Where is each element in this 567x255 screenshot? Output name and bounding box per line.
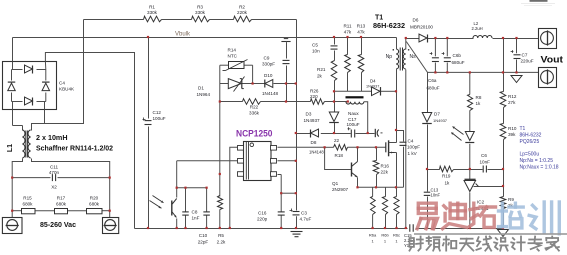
opto LED xyxy=(465,132,474,141)
wire Ns bottom x=405.8 xyxy=(405,70,407,229)
svg-text:C6b: C6b xyxy=(453,53,462,58)
wire opto LED branch x=469.8 xyxy=(469,72,471,94)
sense resistor R6c 1 xyxy=(394,197,399,215)
junction at 516.5,72.4 xyxy=(515,71,517,73)
svg-text:86H-6232: 86H-6232 xyxy=(373,23,405,30)
resistor R21 2k xyxy=(331,61,337,81)
svg-text:D10: D10 xyxy=(264,73,273,78)
svg-text:1 kV: 1 kV xyxy=(408,151,418,156)
svg-text:220: 220 xyxy=(310,94,318,99)
svg-text:D1: D1 xyxy=(198,86,204,91)
junction at 281.2,228 xyxy=(280,227,282,229)
IC U1 pin 4 xyxy=(271,172,277,177)
svg-text:D6: D6 xyxy=(413,18,419,23)
wire Ns top to D6 xyxy=(405,39,407,50)
junction at 295.8,193.2 xyxy=(295,192,297,194)
opto LED emission arrows xyxy=(453,127,464,135)
svg-text:PQ26/25: PQ26/25 xyxy=(520,139,540,145)
thermistor R14 NTC xyxy=(229,62,245,69)
junction at 148,37 xyxy=(147,36,149,38)
junction at 503,186 xyxy=(502,185,504,187)
input terminal left xyxy=(2,218,22,234)
junction at 12.2,177.6 xyxy=(11,177,13,179)
svg-text:680uF: 680uF xyxy=(452,60,465,65)
junction at 109.7,210.7 xyxy=(109,210,111,212)
svg-text:NTC: NTC xyxy=(228,54,238,59)
wire AC node to startup resistors x=83 xyxy=(32,20,84,131)
svg-text:336k: 336k xyxy=(249,111,260,116)
svg-text:C3: C3 xyxy=(301,211,307,216)
svg-text:1N4937: 1N4937 xyxy=(433,118,448,123)
watermark text line 1 xyxy=(418,203,436,213)
svg-text:1nF: 1nF xyxy=(192,216,200,221)
junction at 295.8,160.8 xyxy=(295,160,297,162)
svg-text:330pF: 330pF xyxy=(262,62,275,67)
wire compensation line y=169 xyxy=(428,169,440,171)
capacitor C7 220uF xyxy=(514,54,521,56)
junction at 405.8,228 xyxy=(405,227,407,229)
wire C7 branch xyxy=(516,39,518,54)
svg-text:330k: 330k xyxy=(147,10,158,15)
resistor R15 680k xyxy=(22,209,36,214)
junction at 176.7,228 xyxy=(176,227,178,229)
svg-text:C7: C7 xyxy=(522,53,528,58)
resistor R17 680k xyxy=(55,209,68,214)
wire snubber chain x=334 xyxy=(334,38,336,45)
capacitor C3 4.7uF xyxy=(293,211,300,213)
svg-text:C5: C5 xyxy=(312,43,318,48)
capacitor aux small xyxy=(374,129,376,137)
junction at 435.4,72.4 xyxy=(434,71,436,73)
wire C9 branch x=286 xyxy=(286,43,288,59)
transistor Q1 2N2907 xyxy=(351,163,353,177)
junction at 12.2,210.7 xyxy=(11,210,13,212)
svg-text:IC2: IC2 xyxy=(477,200,485,205)
common mode choke L1 2x10mH xyxy=(22,130,25,158)
svg-text:4.7uF: 4.7uF xyxy=(300,217,312,222)
resistor R13 47k xyxy=(358,55,364,73)
wire C6a branch xyxy=(434,39,436,57)
svg-text:85-260 Vac: 85-260 Vac xyxy=(40,222,76,229)
wire top startup rail y=19 xyxy=(84,19,144,21)
mosfet M1 xyxy=(385,142,387,152)
svg-text:C16: C16 xyxy=(258,211,267,216)
wire sense resistor Rb branch xyxy=(385,187,387,196)
capacitor C6b 680uF xyxy=(444,57,451,59)
junction at 252.6,83.5 xyxy=(252,82,254,84)
svg-text:2.2uH: 2.2uH xyxy=(472,26,483,31)
wire opto emitter to ground xyxy=(176,219,178,229)
svg-text:R10: R10 xyxy=(508,126,517,131)
svg-text:R26: R26 xyxy=(310,89,319,94)
optocoupler phototransistor xyxy=(171,201,173,216)
junction at 334,101.5 xyxy=(333,100,335,102)
svg-text:470n: 470n xyxy=(49,170,60,175)
svg-text:Lp=500u: Lp=500u xyxy=(520,152,540,158)
svg-text:R15: R15 xyxy=(23,196,32,201)
junction at 206.6,228 xyxy=(206,227,208,229)
resistor R18 22 xyxy=(334,145,348,151)
output terminal plus xyxy=(539,29,557,49)
svg-text:R6b: R6b xyxy=(381,233,389,238)
svg-text:100uF: 100uF xyxy=(347,122,360,127)
junction at 176.7,187.7 xyxy=(176,187,178,189)
svg-text:10nF: 10nF xyxy=(480,160,491,165)
diode D7 1N4937 xyxy=(422,113,432,123)
svg-text:D7: D7 xyxy=(434,112,440,117)
svg-text:R18: R18 xyxy=(335,153,344,158)
wire R11 branch xyxy=(347,38,349,55)
wire TL431 ref line xyxy=(474,186,504,188)
wire IC pin1 to ground xyxy=(230,147,238,228)
svg-text:T1: T1 xyxy=(375,15,383,22)
svg-text:C12: C12 xyxy=(153,110,162,115)
junction at 361,37 xyxy=(360,36,362,38)
junction at 385,228 xyxy=(384,227,386,229)
svg-text:NCP1250: NCP1250 xyxy=(236,129,273,140)
wire NTC parallel loop xyxy=(220,64,229,66)
ground symbol primary xyxy=(291,231,303,233)
resistor R22 336k xyxy=(243,99,261,105)
junction at 435.4,38 xyxy=(434,37,436,39)
wire aux cap line y=133 xyxy=(296,133,311,135)
resistor R19 1k xyxy=(440,166,454,172)
capacitor C5 10n xyxy=(331,45,338,47)
inductor L2 2.2uH xyxy=(473,36,492,39)
wire X2 cap line y=177.6 xyxy=(12,177,50,179)
wire lower output rail y=72.4 xyxy=(428,71,539,73)
diode D10 1N4148 xyxy=(264,80,266,88)
svg-text:C11: C11 xyxy=(50,165,59,170)
diode D6 MBR20100 xyxy=(419,34,427,42)
capacitor C6 10nF xyxy=(482,166,484,173)
wire output rail y=38 xyxy=(428,38,474,40)
resistor R3 330k xyxy=(192,16,210,22)
IC U1 pin 6 xyxy=(271,146,277,151)
input terminal right xyxy=(103,218,119,234)
svg-text:100pF: 100pF xyxy=(407,145,420,150)
svg-text:D4: D4 xyxy=(370,79,376,84)
sense resistor R6a 1 xyxy=(371,197,376,215)
svg-text:L1: L1 xyxy=(7,144,14,152)
junction at 185.5,228 xyxy=(184,227,186,229)
resistor R10 39k xyxy=(500,124,506,140)
svg-text:R17: R17 xyxy=(57,196,66,201)
diode D8 1N4148 xyxy=(310,130,312,138)
svg-text:Vbulk: Vbulk xyxy=(175,32,191,38)
svg-text:47k: 47k xyxy=(357,30,365,35)
svg-text:R2: R2 xyxy=(239,5,245,10)
svg-text:2k: 2k xyxy=(317,74,323,79)
junction at 286,101.5 xyxy=(285,100,287,102)
svg-text:680k: 680k xyxy=(23,202,34,207)
wire naux right stub xyxy=(364,102,368,134)
svg-text:R8: R8 xyxy=(476,95,482,100)
svg-text:330k: 330k xyxy=(195,10,206,15)
resistor R2 220k xyxy=(234,16,252,22)
svg-text:39k: 39k xyxy=(508,132,516,137)
wire R22 R26 line y=101.5 xyxy=(220,101,243,103)
junction at 219.8,174 xyxy=(219,173,221,175)
svg-text:R3: R3 xyxy=(197,5,203,10)
svg-text:1k: 1k xyxy=(445,181,451,186)
wire bridge plus stub xyxy=(12,38,14,62)
junction at 185.5,187.7 xyxy=(184,187,186,189)
wire primary ground rail y=228 xyxy=(135,228,408,230)
capacitor C4 100pF 1kV xyxy=(400,141,407,143)
svg-text:Ns: Ns xyxy=(410,54,417,60)
junction at 286,83.5 xyxy=(285,82,287,84)
junction at 219.8,101.5 xyxy=(219,100,221,102)
resistor R16 22k xyxy=(373,161,379,175)
junction at 324.6,147.3 xyxy=(324,146,326,148)
svg-text:680k: 680k xyxy=(89,202,100,207)
svg-text:R13: R13 xyxy=(357,24,366,29)
junction at 148,228 xyxy=(147,227,149,229)
svg-text:D8: D8 xyxy=(311,140,317,145)
svg-text:D3: D3 xyxy=(306,112,312,117)
junction at 334,37 xyxy=(333,36,335,38)
wire sense resistor Rc branch xyxy=(396,187,398,196)
junction at 516.5,38 xyxy=(515,37,517,39)
resistor R1 330k xyxy=(144,16,162,22)
svg-text:R20: R20 xyxy=(90,196,99,201)
junction at 376,147.3 xyxy=(375,146,377,148)
junction at 347.8,101.5 xyxy=(347,100,349,102)
svg-text:Np:Ns = 1:0.25: Np:Ns = 1:0.25 xyxy=(520,158,554,164)
svg-text:C9: C9 xyxy=(264,56,270,61)
watermark underline xyxy=(414,233,567,235)
junction at 296,228 xyxy=(295,227,297,229)
junction at 405.8,38 xyxy=(405,37,407,39)
resistor R11 47k xyxy=(345,55,351,73)
svg-text:KBU4K: KBU4K xyxy=(59,87,75,92)
wire C10 branch x=206.6 xyxy=(206,188,208,212)
junction at 372.6,228 xyxy=(372,227,374,229)
capacitor C17 100uF xyxy=(350,130,352,138)
IC U1 pin 1 xyxy=(238,146,244,151)
wire IC drv pin to gate node xyxy=(278,146,325,148)
svg-text:1N4148: 1N4148 xyxy=(309,150,324,155)
svg-text:2 x 10mH: 2 x 10mH xyxy=(36,135,68,142)
resistor R9 2k xyxy=(500,197,506,209)
junction at 469.8,72.4 xyxy=(469,71,471,73)
bridge rectifier C4 KBU4K xyxy=(3,62,57,110)
junction at 503,169 xyxy=(502,168,504,170)
wire discharge resistor row y=210.7 xyxy=(12,210,21,212)
svg-text:R16: R16 xyxy=(381,164,390,169)
junction at 295.8,133 xyxy=(295,132,297,134)
junction at 447.3,38 xyxy=(446,37,448,39)
svg-text:2N2907: 2N2907 xyxy=(332,187,349,192)
IC U1 pin 3 xyxy=(238,172,244,177)
wire secondary diagonal xyxy=(406,42,427,73)
svg-text:R11: R11 xyxy=(343,24,352,29)
aux winding Naux xyxy=(346,96,364,98)
svg-text:1N4937: 1N4937 xyxy=(304,118,321,123)
wire Vcc rail x=296 vertical xyxy=(296,20,298,211)
wire D7 branch x=427 xyxy=(427,72,429,112)
junction at 219.8,228 xyxy=(219,227,221,229)
wire primary switch node x=396 xyxy=(396,70,398,143)
sense resistor R6b 1 xyxy=(382,197,387,215)
svg-text:10n: 10n xyxy=(312,49,320,54)
wire C12 branch x=148 xyxy=(148,38,150,119)
svg-text:Vout: Vout xyxy=(541,55,564,65)
wire gate line after R18 xyxy=(348,146,386,148)
svg-text:100uF: 100uF xyxy=(153,116,166,121)
wire FB line to optocoupler xyxy=(177,160,238,162)
svg-text:C6: C6 xyxy=(481,153,487,158)
svg-text:680k: 680k xyxy=(56,202,67,207)
capacitor C8 1nF xyxy=(182,211,189,213)
wire jog y=193.2 xyxy=(281,192,296,194)
svg-text:86H-6232: 86H-6232 xyxy=(520,133,542,139)
svg-text:R19: R19 xyxy=(442,174,451,179)
ground symbol secondary xyxy=(511,76,522,83)
junction at 427,228 xyxy=(426,227,428,229)
resistor R5 2.2k xyxy=(218,196,223,210)
wire C4 snubber branch xyxy=(397,131,404,142)
IC U1 pin 5 xyxy=(271,159,277,164)
svg-text:2.2k: 2.2k xyxy=(217,240,226,245)
svg-text:1N964: 1N964 xyxy=(197,92,211,97)
wire Q1 base loop xyxy=(325,147,352,169)
diode D3 1N4937 xyxy=(329,112,339,122)
junction at 396,187.3 xyxy=(395,186,397,188)
svg-text:220k: 220k xyxy=(237,10,248,15)
svg-text:X2: X2 xyxy=(51,185,57,190)
svg-text:10nF: 10nF xyxy=(431,193,441,198)
wire source sense line y=187.3 xyxy=(358,186,404,188)
wire R16 branch xyxy=(376,147,378,160)
svg-text:Np:Naux = 1:0.18: Np:Naux = 1:0.18 xyxy=(520,165,559,171)
wire Q1 emitter xyxy=(357,178,359,188)
junction at 396,91.3 xyxy=(395,90,397,92)
resistor R8 1k xyxy=(468,95,473,111)
svg-text:R21: R21 xyxy=(317,67,326,72)
junction at 229.8,228 xyxy=(229,227,231,229)
svg-text:R22: R22 xyxy=(250,105,259,110)
svg-text:C10: C10 xyxy=(199,233,208,238)
capacitor C6a 680uF xyxy=(432,57,439,59)
wire choke bottom right to input terminal xyxy=(32,159,110,218)
wire R13 branch xyxy=(361,38,363,55)
wire choke bottom left to input terminal xyxy=(12,159,22,218)
junction at 357.5,187.3 xyxy=(356,186,358,188)
IC U1 pin 2 xyxy=(238,159,244,164)
top right artifact bar xyxy=(530,0,548,2)
svg-text:22k: 22k xyxy=(381,170,389,175)
ground arrow bottom right xyxy=(498,230,509,237)
junction at 396.5,228 xyxy=(395,227,397,229)
wire sense resistor Ra branch xyxy=(372,187,374,196)
capacitor C15 2.2n Y1 xyxy=(409,224,411,232)
svg-text:1k: 1k xyxy=(476,101,482,106)
capacitor C16 220p xyxy=(278,211,285,213)
resistor R26 220 xyxy=(311,99,325,105)
wire feedback divider branch x=503 xyxy=(503,39,505,92)
wire C8 branch x=185.5 xyxy=(185,188,187,212)
wire C6b branch xyxy=(446,39,448,57)
svg-text:C4: C4 xyxy=(408,139,414,144)
wire bridge AC stubs below box xyxy=(12,110,14,126)
svg-text:R14: R14 xyxy=(228,48,237,53)
capacitor C10 22pF xyxy=(203,211,210,213)
svg-text:Np: Np xyxy=(386,54,393,60)
resistor R20 680k xyxy=(87,209,103,214)
svg-text:1N4937: 1N4937 xyxy=(366,85,379,89)
svg-text:C8: C8 xyxy=(192,210,198,215)
output terminal minus xyxy=(539,68,557,88)
svg-text:Schaffner RN114-1.2/02: Schaffner RN114-1.2/02 xyxy=(36,146,113,153)
wire clamp line y=91.3 with D4 xyxy=(335,90,372,92)
capacitor C11 470n X2 xyxy=(51,174,53,181)
wire zener D1 line y=83.5 xyxy=(220,83,229,85)
junction at 367.7,133 xyxy=(367,132,369,134)
diode D4 1N4937 xyxy=(372,87,381,96)
shunt regulator IC2 TL431 xyxy=(465,178,476,180)
junction at 503,38 xyxy=(502,37,504,39)
junction at 469.8,169 xyxy=(469,168,471,170)
svg-text:C4: C4 xyxy=(59,81,65,86)
wire Vbulk rail y=37 xyxy=(13,37,397,39)
junction at 503,72.4 xyxy=(502,71,504,73)
wire bridge minus stub and rail to ground xyxy=(45,53,134,229)
capacitor C13 10nF xyxy=(424,191,431,193)
wire IC cs pin branch xyxy=(278,174,282,176)
svg-text:47k: 47k xyxy=(344,30,352,35)
svg-text:R9: R9 xyxy=(508,197,514,202)
zener diode D1 1N964 xyxy=(228,79,241,89)
junction at 376,187.3 xyxy=(375,186,377,188)
watermark text line 2 xyxy=(410,238,414,247)
junction at 427,169 xyxy=(426,168,428,170)
svg-text:Naux: Naux xyxy=(348,111,359,116)
svg-text:220p: 220p xyxy=(257,217,268,222)
junction at 469.8,228 xyxy=(469,227,471,229)
junction at 396,130 xyxy=(395,129,397,131)
opto light arrows receive xyxy=(153,196,164,203)
svg-text:MBR20100: MBR20100 xyxy=(410,25,433,30)
capacitor C12 100uF xyxy=(145,120,152,122)
svg-text:27k: 27k xyxy=(508,100,516,105)
junction at 347.5,37 xyxy=(346,36,348,38)
junction at 357.5,147.3 xyxy=(356,146,358,148)
junction at 109.7,177.6 xyxy=(109,177,111,179)
wire zener node vertical x=219.8 xyxy=(219,65,221,196)
junction at 447.3,72.4 xyxy=(446,71,448,73)
svg-text:R12: R12 xyxy=(508,94,517,99)
wire C13 branch x=427 lower xyxy=(427,170,429,192)
svg-text:R1: R1 xyxy=(149,5,155,10)
svg-text:1N4148: 1N4148 xyxy=(262,91,279,96)
svg-text:Q1: Q1 xyxy=(332,181,339,186)
wire opto collector node y=187.7 xyxy=(177,187,207,189)
junction at 334,91.3 xyxy=(333,90,335,92)
svg-text:R6c: R6c xyxy=(393,233,400,238)
svg-text:R6a: R6a xyxy=(369,233,377,238)
junction at 334,133 xyxy=(333,132,335,134)
svg-text:22pF: 22pF xyxy=(198,240,209,245)
svg-text:680uF: 680uF xyxy=(427,86,440,91)
wire IC vcc pin to rail xyxy=(278,160,296,162)
capacitor C9 330pF with ground xyxy=(284,38,288,40)
junction at 281.2,193.2 xyxy=(280,192,282,194)
wire TL431 anode to ground xyxy=(469,193,471,229)
resistor R12 27k xyxy=(500,92,506,108)
junction at 295.8,83.5 xyxy=(295,82,297,84)
